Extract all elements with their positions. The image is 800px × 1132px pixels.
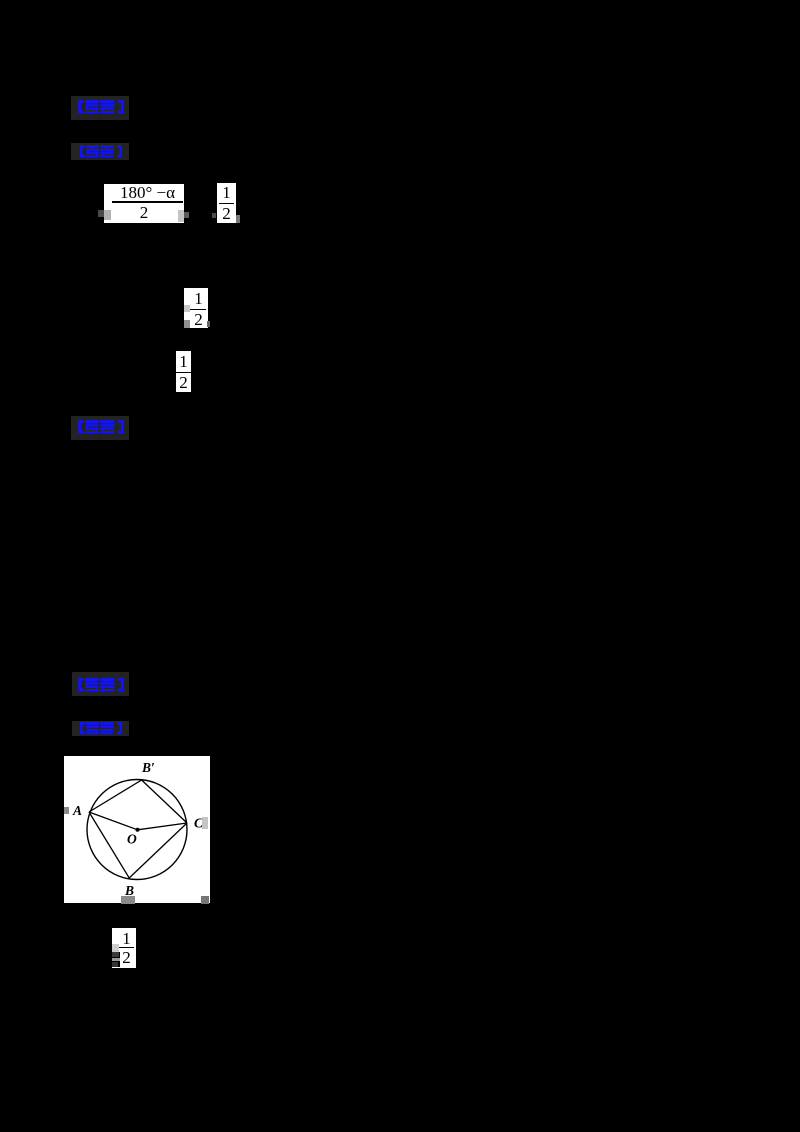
chord A-B'	[89, 780, 142, 812]
radius O-C	[138, 823, 188, 830]
svg-text:A: A	[72, 803, 82, 818]
highlight box behind blue label 2	[71, 143, 129, 160]
chord A-B	[89, 812, 129, 878]
radius A-O	[89, 812, 138, 830]
svg-text:O: O	[127, 832, 137, 847]
gray mark right of fraction 1	[184, 212, 189, 218]
blue label 2	[78, 145, 126, 158]
black notch under equals marks left of fraction 5	[112, 952, 120, 967]
blue label 4	[78, 678, 126, 692]
highlight box behind blue label 1	[71, 96, 129, 120]
blue label 3	[78, 420, 126, 434]
gray mark left of fraction 1	[98, 210, 104, 217]
gray mark after fraction 2	[236, 215, 240, 223]
gray equals marks left of fraction 5	[112, 952, 119, 957]
gray tab left of fraction 5	[112, 944, 119, 952]
circle O	[87, 780, 187, 880]
gray mark before fraction 2	[212, 213, 216, 218]
gray corner bottom-right of fraction 1	[178, 210, 184, 222]
gray corner bottom-left of fraction 1	[104, 210, 111, 220]
fraction image 1/2 (fourth)	[112, 928, 136, 968]
svg-text:B′: B′	[141, 760, 155, 775]
blue label 5	[78, 722, 126, 735]
fraction image 1/2 (first)	[217, 183, 236, 223]
gray handle bottom-center of figure	[121, 896, 135, 904]
gray mark right of fraction 3	[207, 321, 210, 327]
highlight box behind blue label 3	[71, 416, 129, 440]
highlight box behind blue label 4	[72, 672, 129, 696]
blue label 1	[78, 100, 126, 114]
fraction image 1/2 (third)	[176, 351, 191, 392]
gray corner bottom-left of fraction 3	[184, 320, 190, 328]
highlight box behind blue label 5	[72, 721, 129, 736]
geometry figure: circle O with inscribed quadrilateral AB'CB	[64, 756, 210, 903]
chord B-C	[129, 823, 187, 878]
gray handle bottom-right of figure	[201, 896, 209, 904]
chord B'-C	[142, 780, 187, 823]
fraction image 1/2 (second)	[184, 288, 208, 328]
gray tab left of fraction 3	[184, 305, 190, 312]
center dot O	[136, 828, 140, 832]
gray mark at left edge of figure	[64, 807, 69, 814]
gray mark at right edge of figure near C	[202, 817, 208, 829]
fraction image (180°−α)/2	[104, 184, 184, 223]
